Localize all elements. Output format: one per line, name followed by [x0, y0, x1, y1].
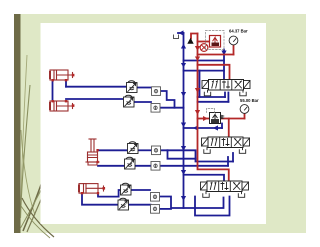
svg-text:55.00 Bar: 55.00 Bar — [240, 98, 259, 103]
svg-text:64.37 Bar: 64.37 Bar — [229, 29, 248, 34]
